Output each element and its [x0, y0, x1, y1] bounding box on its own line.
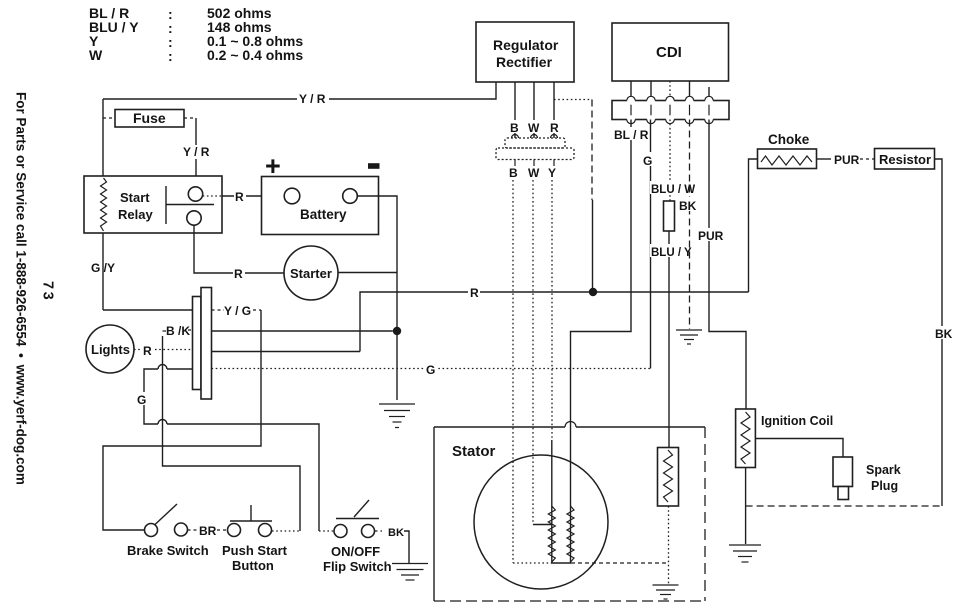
wire relay to starter R	[194, 225, 284, 281]
battery plus terminal label	[265, 151, 281, 181]
svg-text:R: R	[470, 286, 479, 300]
ignition coil T1	[736, 409, 834, 468]
node junction dot on x=397	[393, 327, 401, 335]
svg-text:+: +	[265, 151, 281, 181]
wire regulator pin R to connector	[553, 82, 555, 138]
wire B dotted into stator	[512, 180, 514, 563]
start relay terminal circles	[187, 187, 203, 225]
svg-text:G: G	[643, 154, 652, 168]
pin labels B W Y below connector	[509, 166, 556, 180]
wire BK bottom run to ignition coil ground lead	[746, 505, 942, 507]
wire BK flip switch to ground	[375, 527, 410, 563]
wire BK from resistor down right side	[933, 159, 953, 506]
svg-text:R: R	[143, 344, 152, 358]
svg-text:W: W	[528, 121, 540, 135]
svg-text:CDI: CDI	[656, 44, 682, 61]
wire battery negative to right vertical	[357, 196, 397, 400]
wire G dotted from connector to CDI ground lead	[212, 361, 651, 377]
wire connector to ground node	[212, 330, 393, 332]
battery BT1 box	[262, 177, 379, 235]
svg-text:Y / R: Y / R	[299, 92, 326, 106]
pickup lead box	[664, 201, 675, 231]
svg-text:Push Start: Push Start	[222, 543, 288, 558]
svg-text:Ignition Coil: Ignition Coil	[761, 414, 833, 428]
stator pickup resistor	[658, 448, 679, 507]
svg-text:Resistor: Resistor	[879, 152, 931, 167]
regulator connector upper shell	[505, 135, 565, 149]
junction dot R bus and regulator branch	[589, 288, 597, 296]
wire pickup resistor to ground dotted	[668, 506, 670, 584]
lights L1	[86, 325, 134, 373]
stator flywheel circle	[474, 455, 608, 589]
starter M1	[284, 246, 338, 300]
svg-text:B: B	[510, 121, 519, 135]
wire G loop from connector to flip switch	[136, 365, 334, 532]
svg-text:Relay: Relay	[118, 207, 153, 222]
wire BLU/W from CDI to pickup resistor	[650, 120, 695, 202]
CDI pin stubs to connector	[631, 81, 709, 101]
regulator connector lower shell	[496, 148, 574, 166]
legend row 4: W 0.2~0.4 ohms	[89, 47, 303, 64]
wire regulator pin W to connector	[533, 82, 535, 138]
page number 73	[40, 281, 56, 302]
svg-text:Lights: Lights	[91, 342, 130, 357]
wire G from CDI to dotted G line	[641, 120, 654, 369]
choke L2	[758, 132, 817, 169]
wire G/Y corner from relay coil to key connector	[91, 261, 192, 310]
CDI U2 box	[612, 23, 729, 81]
wire Y/R top horizontal from fuse column to regulator	[103, 82, 496, 106]
wire BR brake to push start	[188, 524, 228, 538]
stator box	[434, 422, 705, 601]
svg-text:Choke: Choke	[768, 132, 810, 147]
svg-text:G: G	[137, 393, 146, 407]
svg-text:Plug: Plug	[871, 479, 898, 493]
svg-text:Spark: Spark	[866, 463, 901, 477]
svg-text:Battery: Battery	[300, 207, 347, 222]
svg-text:BLU / W: BLU / W	[651, 184, 695, 196]
svg-text:ON/OFF: ON/OFF	[331, 544, 380, 559]
wire starter to battery negative vertical	[338, 272, 397, 274]
svg-text:G: G	[426, 363, 435, 377]
fuse F1	[103, 110, 196, 128]
svg-text::: :	[168, 48, 173, 64]
svg-text:Brake Switch: Brake Switch	[127, 543, 209, 558]
svg-text:Button: Button	[232, 558, 274, 573]
svg-text:W: W	[528, 166, 540, 180]
stator coil 1 zigzag	[548, 506, 555, 562]
ground below ignition coil	[729, 545, 761, 562]
wire Y/R fuse to relay	[183, 118, 210, 187]
wire W dotted into stator	[533, 180, 552, 525]
svg-text:Flip Switch: Flip Switch	[323, 559, 392, 574]
svg-text:Y / G: Y / G	[224, 304, 251, 318]
svg-text:Stator: Stator	[452, 443, 496, 460]
svg-text:B /K: B /K	[166, 324, 190, 338]
svg-text:BK: BK	[388, 527, 404, 539]
svg-text:BL / R: BL / R	[614, 128, 649, 142]
svg-text:PUR: PUR	[834, 153, 860, 167]
spark plug P1	[833, 457, 901, 500]
svg-text:R: R	[234, 267, 243, 281]
start relay coil zigzag	[101, 178, 107, 231]
key switch connector right half	[201, 288, 212, 400]
svg-text:Regulator: Regulator	[493, 37, 559, 53]
start relay K1 box	[84, 176, 222, 233]
svg-text:W: W	[89, 47, 103, 63]
wire Y/G from connector to brake switch loop	[103, 304, 261, 530]
wire main R bus y=292	[360, 284, 749, 352]
side margin text: For Parts or Service call	[14, 92, 29, 485]
pin labels B W R	[506, 120, 562, 135]
start relay contact bars	[166, 186, 214, 224]
wire Y dotted into stator	[551, 180, 553, 563]
wire R dotted lights to connector	[134, 342, 193, 358]
wire choke left lead down to R bus	[749, 159, 758, 292]
svg-text:73: 73	[40, 281, 56, 302]
legend row 3: Y 0.1~0.8 ohms	[89, 33, 303, 50]
wire PUR from CDI to ignition coil	[697, 120, 746, 410]
svg-text:Y: Y	[548, 166, 556, 180]
svg-text:R: R	[550, 121, 559, 135]
wire regulator pin B to connector	[514, 82, 516, 138]
ON/OFF flip switch S3	[323, 500, 392, 574]
wire dotted R branch from regulator to R bus junction	[554, 100, 593, 289]
svg-text:B: B	[509, 166, 518, 180]
svg-text:R: R	[235, 190, 244, 204]
wire left vertical bus x=103 (fuse/relay coil feed)	[102, 99, 104, 310]
legend row 1: BL/R 502 ohms	[89, 5, 272, 22]
svg-text:BK: BK	[679, 199, 697, 213]
legend row 2: BLU/Y 148 ohms	[89, 19, 272, 36]
wire R relay to battery	[203, 189, 284, 204]
ground below stator resistor	[653, 585, 679, 599]
ground below flip switch	[392, 564, 428, 581]
wire BL/R from CDI down and into stator coil	[571, 120, 650, 564]
svg-text:G /Y: G /Y	[91, 261, 115, 275]
svg-text:Start: Start	[120, 190, 150, 205]
svg-text:BR: BR	[199, 524, 217, 538]
svg-text:Rectifier: Rectifier	[496, 54, 553, 70]
wire BK from CDI to ground	[678, 120, 700, 330]
ground below CDI BK	[676, 330, 702, 344]
svg-text:Y / R: Y / R	[183, 145, 210, 159]
wire ignition coil HT lead to spark plug	[755, 439, 843, 458]
brake switch S1	[127, 504, 209, 558]
battery minus terminal label	[368, 163, 380, 169]
wire BLU/Y from lead box into stator resistor	[650, 231, 692, 448]
stator coil 2 zigzag	[567, 506, 574, 562]
resistor R2	[875, 149, 935, 170]
ground below node	[379, 404, 415, 428]
CDI connector strip	[612, 96, 729, 123]
svg-text:Fuse: Fuse	[133, 110, 166, 126]
svg-text:Starter: Starter	[290, 266, 332, 281]
wire connector to R bus	[212, 351, 361, 353]
wire ignition coil ground lead	[745, 468, 747, 545]
svg-text:BLU / Y: BLU / Y	[651, 247, 692, 259]
svg-text:For Parts or Service call 1-88: For Parts or Service call 1-888-926-6554…	[14, 92, 29, 485]
key switch connector left half	[193, 297, 202, 390]
wire PUR choke to resistor	[817, 153, 875, 167]
push start button S2	[222, 505, 288, 573]
svg-text:0.2 ~ 0.4 ohms: 0.2 ~ 0.4 ohms	[207, 47, 303, 63]
wire B/K label and run to push start button	[163, 324, 301, 531]
stator bottom bus dotted	[513, 562, 669, 564]
svg-text:BK: BK	[935, 327, 953, 341]
regulator rectifier U1 box	[476, 22, 574, 82]
svg-text:PUR: PUR	[698, 229, 724, 243]
